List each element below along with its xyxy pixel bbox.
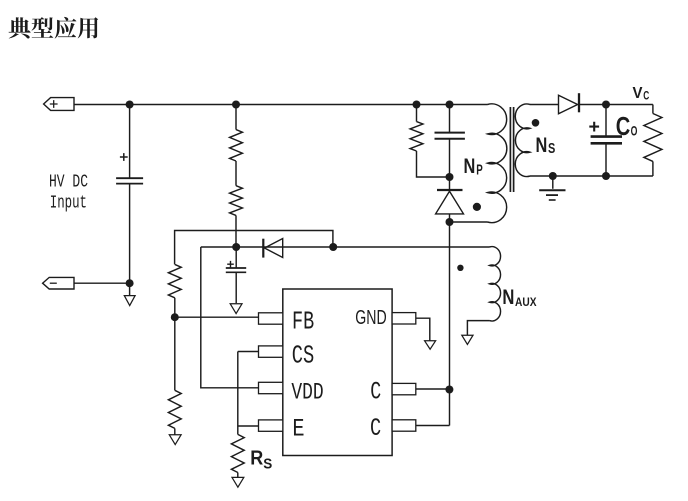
- svg-text:E: E: [292, 415, 304, 444]
- svg-text:S: S: [548, 141, 556, 157]
- svg-text:C: C: [643, 91, 649, 103]
- svg-text:Input: Input: [50, 193, 87, 214]
- svg-text:GND: GND: [355, 307, 386, 329]
- svg-text:R: R: [250, 447, 263, 469]
- svg-text:N: N: [464, 155, 476, 178]
- svg-text:VDD: VDD: [291, 380, 323, 407]
- svg-text:N: N: [536, 134, 548, 157]
- svg-text:CS: CS: [292, 342, 315, 371]
- svg-text:C: C: [370, 377, 381, 406]
- svg-text:C: C: [616, 111, 631, 141]
- svg-text:P: P: [476, 163, 483, 179]
- svg-text:V: V: [633, 85, 644, 102]
- svg-text:N: N: [502, 286, 514, 309]
- svg-text:HV DC: HV DC: [49, 172, 88, 193]
- svg-text:FB: FB: [292, 307, 314, 336]
- svg-text:O: O: [631, 122, 638, 138]
- svg-text:S: S: [263, 456, 272, 472]
- svg-text:C: C: [370, 414, 381, 443]
- svg-text:AUX: AUX: [515, 295, 537, 309]
